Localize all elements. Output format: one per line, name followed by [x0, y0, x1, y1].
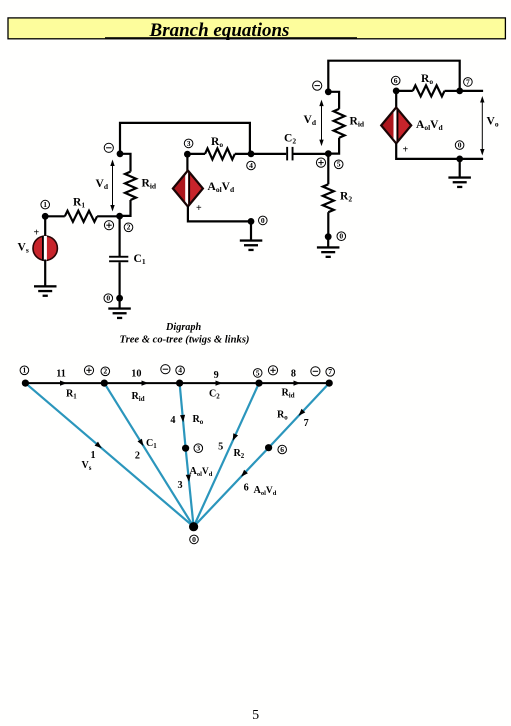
- title underline: [105, 37, 357, 38]
- digraph node 2: [101, 380, 108, 387]
- digraph label minus node4: [161, 365, 170, 374]
- resistor Rid2: [334, 109, 345, 138]
- svg-text:5: 5: [337, 160, 341, 169]
- digraph node 5: [255, 380, 262, 387]
- digraph label plus node5: [268, 366, 277, 375]
- digraph top line: [25, 382, 329, 384]
- wire Rid1 bottom to node2: [120, 200, 131, 216]
- wire node2 down to C1: [118, 216, 120, 257]
- svg-text:10: 10: [131, 369, 141, 380]
- svg-text:1: 1: [23, 366, 27, 375]
- digraph node 4: [176, 380, 183, 387]
- node label 4: [247, 161, 256, 170]
- resistor Ro2: [413, 85, 445, 96]
- wire node6 down to source2: [395, 91, 397, 108]
- node 0 below C1: [116, 295, 123, 302]
- wire jog Rid2 top: [328, 92, 339, 109]
- wire node1 to R1 to node2: [45, 215, 65, 217]
- digraph label 2: [101, 367, 110, 376]
- node label 0 output: [455, 141, 464, 150]
- svg-text:5: 5: [218, 442, 223, 453]
- svg-text:4: 4: [170, 415, 175, 426]
- edge 1 Vs: [25, 383, 193, 527]
- wire Vs to ground: [44, 260, 46, 287]
- wire node3 down to source: [186, 154, 188, 171]
- node 5: [325, 150, 332, 157]
- node label 0 below R2: [337, 232, 346, 241]
- svg-text:2: 2: [103, 367, 107, 376]
- edge 9 C2 arrow: [216, 381, 223, 386]
- digraph label 7: [326, 367, 335, 376]
- ground below R2: [317, 246, 340, 258]
- capacitor C1: [109, 256, 128, 262]
- edge 10 Rid arrow: [142, 381, 149, 386]
- svg-text:+: +: [403, 144, 409, 155]
- node label minus stage2: [313, 81, 322, 90]
- arrow Vd stage1: [110, 160, 114, 212]
- wire Ro1 to node4: [235, 153, 251, 155]
- svg-text:0: 0: [106, 294, 110, 303]
- dependent source AolVd stage1: [173, 171, 203, 207]
- edge 3 AolVd: [186, 448, 194, 527]
- node label minus stage1: [104, 143, 113, 152]
- node label 3: [184, 139, 193, 148]
- svg-text:5: 5: [256, 368, 260, 377]
- digraph label plus node2: [84, 366, 93, 375]
- wire R1 right to node2: [97, 215, 120, 217]
- node 0 stage1 ground: [248, 218, 255, 225]
- node 0 output: [456, 156, 463, 163]
- svg-text:2: 2: [135, 451, 140, 462]
- wire R2 to ground node: [327, 212, 329, 237]
- resistor Rid1: [125, 172, 136, 200]
- wire node4 to C2: [251, 153, 286, 155]
- digraph label 4: [176, 366, 185, 375]
- wire jog Rid1 top: [120, 154, 131, 172]
- digraph node 3: [182, 445, 189, 452]
- wire node5 to R2: [327, 154, 329, 185]
- svg-text:7: 7: [328, 367, 332, 376]
- node label 1: [41, 200, 50, 209]
- digraph label 3: [194, 444, 203, 453]
- svg-text:7: 7: [304, 418, 309, 429]
- node label 0 stage1: [259, 216, 268, 225]
- node 0 below R2: [325, 233, 332, 240]
- arrow Vd stage2: [319, 100, 323, 147]
- resistor R1: [65, 211, 97, 222]
- node label 2: [124, 223, 133, 232]
- edge 7 Ro: [269, 383, 330, 448]
- digraph label 1: [20, 366, 29, 375]
- svg-text:7: 7: [466, 77, 470, 86]
- resistor R2: [323, 184, 334, 212]
- svg-text:0: 0: [339, 232, 343, 241]
- wire node6 to Ro2: [396, 90, 413, 92]
- digraph label 5: [253, 368, 262, 377]
- digraph node 7: [326, 380, 333, 387]
- edge 8 Rid arrow: [294, 381, 301, 386]
- node 7: [456, 88, 463, 95]
- wire minus2 up and over to node7: [328, 61, 459, 92]
- node minus stage1: [117, 150, 124, 157]
- svg-text:8: 8: [291, 369, 296, 380]
- node 4: [248, 151, 255, 158]
- node 1: [42, 213, 49, 220]
- wire down to ground stage1: [250, 221, 252, 240]
- svg-text:3: 3: [187, 139, 191, 148]
- svg-text:0: 0: [192, 535, 196, 544]
- svg-text:+: +: [34, 228, 40, 239]
- svg-text:2: 2: [127, 223, 131, 232]
- svg-text:9: 9: [214, 370, 219, 381]
- digraph label 6: [278, 445, 287, 454]
- edge 4 Ro: [180, 383, 186, 448]
- digraph node 1: [22, 380, 29, 387]
- wire node3 to Ro1: [187, 153, 205, 155]
- wire C1 to ground node: [118, 262, 120, 298]
- svg-text:3: 3: [177, 480, 182, 491]
- node minus stage2: [325, 88, 332, 95]
- node label 0 below C1: [104, 294, 113, 303]
- digraph node 0: [189, 522, 198, 531]
- wire Ro2 to node7: [445, 90, 460, 92]
- svg-text:1: 1: [91, 450, 96, 461]
- svg-text:11: 11: [56, 369, 66, 380]
- node label 6: [391, 76, 400, 85]
- wire source2 to output ground: [396, 143, 483, 159]
- svg-text:0: 0: [261, 216, 265, 225]
- capacitor C2: [286, 147, 293, 161]
- ground below C1: [108, 307, 131, 319]
- digraph label minus node7: [311, 367, 320, 376]
- svg-text:+: +: [196, 203, 202, 214]
- digraph label 0: [190, 535, 199, 544]
- ground below Vs: [34, 285, 57, 297]
- svg-text:4: 4: [249, 161, 253, 170]
- svg-text:1: 1: [43, 200, 47, 209]
- node 6: [393, 88, 400, 95]
- node 2: [116, 213, 123, 220]
- edge 11 R1 arrow: [60, 381, 67, 386]
- svg-text:5: 5: [252, 708, 259, 723]
- svg-text:6: 6: [394, 76, 398, 85]
- node 3: [184, 151, 191, 158]
- wire source1 to ground: [188, 206, 251, 221]
- edge 6 AolVd: [194, 448, 269, 527]
- ground stage1: [240, 239, 262, 251]
- ground output: [448, 176, 471, 188]
- edge 5 R2: [194, 383, 259, 527]
- resistor Ro1: [205, 148, 235, 159]
- voltage source Vs: [33, 236, 57, 260]
- wire to ground below R2: [327, 237, 329, 248]
- wire node7 to Vo top: [460, 90, 483, 92]
- dependent source AolVd stage2: [381, 107, 411, 143]
- node label plus stage2: [316, 158, 325, 167]
- node label 5: [334, 160, 343, 169]
- wire down to output ground: [459, 159, 461, 178]
- node label 7: [464, 77, 473, 86]
- node label plus stage1: [104, 221, 113, 230]
- arrow Vo: [480, 96, 484, 156]
- edge 2 C1: [104, 383, 193, 527]
- wire Rid2 bottom to node5: [328, 138, 339, 154]
- svg-text:6: 6: [280, 445, 284, 454]
- svg-text:Tree & co-tree (twigs & links): Tree & co-tree (twigs & links): [120, 334, 250, 345]
- svg-text:4: 4: [178, 366, 182, 375]
- svg-text:3: 3: [196, 444, 200, 453]
- wire node1 down to Vs: [44, 216, 46, 237]
- wire minus-node up and over to node4: [120, 123, 250, 154]
- digraph node 6: [265, 444, 272, 451]
- svg-text:0: 0: [458, 141, 462, 150]
- svg-text:Digraph: Digraph: [165, 322, 201, 333]
- title bar: [8, 18, 505, 39]
- svg-text:6: 6: [244, 483, 249, 494]
- wire to ground below C1: [118, 298, 120, 308]
- wire C2 to node5: [294, 153, 329, 155]
